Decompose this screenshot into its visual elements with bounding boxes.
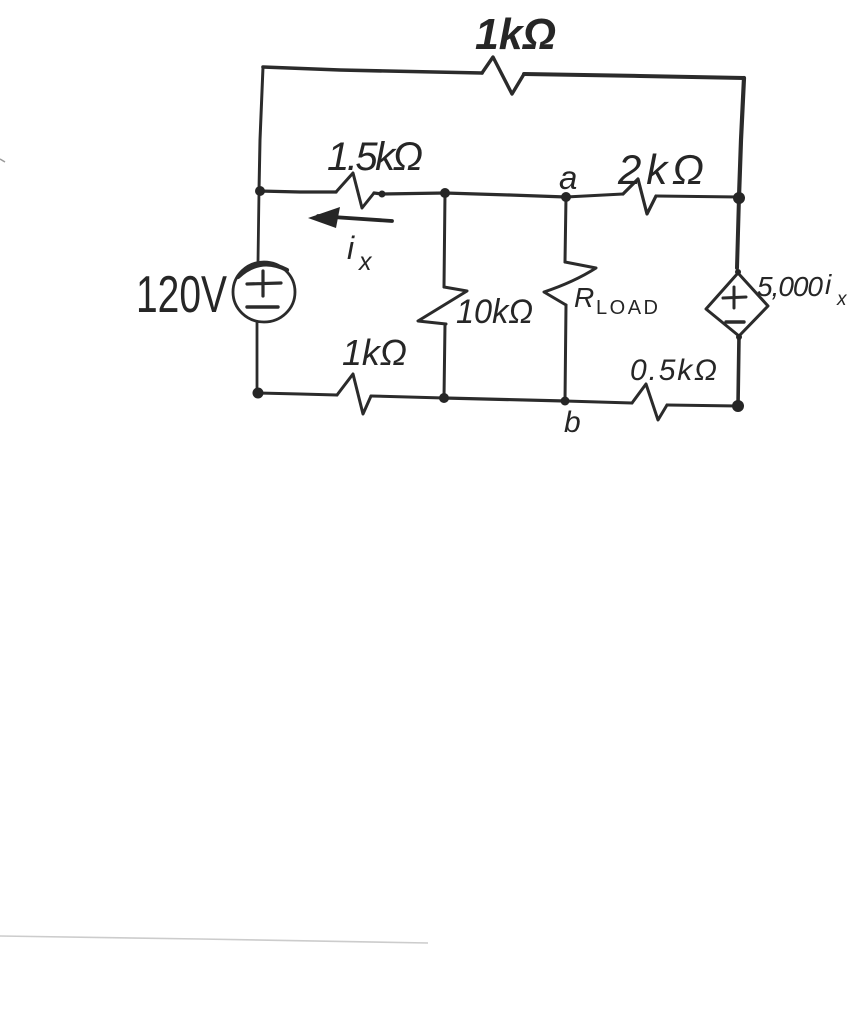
wire top (right segment)	[524, 74, 744, 78]
wire 10k branch bottom	[444, 324, 445, 398]
svg-text:i: i	[347, 230, 355, 266]
resistor R4 bottom 1kΩ zigzag	[337, 374, 371, 414]
svg-text:b: b	[564, 406, 581, 439]
node bottom-right junction	[732, 400, 744, 412]
node diamond bottom blob	[736, 334, 742, 340]
dependent source diamond 5000ix	[706, 273, 768, 336]
resistor R3 2kΩ zigzag	[623, 179, 656, 214]
svg-text:x: x	[358, 248, 373, 276]
wire top (left segment)	[263, 67, 482, 73]
svg-text:R: R	[574, 282, 594, 313]
wire diamond to bottom-right	[738, 336, 739, 406]
dependent source plus sign	[723, 287, 746, 308]
wire bottom node to b	[444, 398, 565, 401]
node 10k top junction	[440, 188, 450, 198]
arrow ix shaft	[318, 216, 392, 221]
wire 10k branch top	[444, 193, 445, 287]
wire bottom to 10k bottom node	[371, 396, 444, 398]
node b junction	[561, 397, 570, 406]
node small after 1.5k	[379, 191, 386, 198]
wire left node to source	[258, 191, 259, 262]
wire Rload branch top	[565, 197, 566, 262]
svg-text:1kΩ: 1kΩ	[342, 332, 407, 373]
resistor RLOAD zigzag	[544, 262, 596, 305]
svg-text:2kΩ: 2kΩ	[617, 146, 704, 193]
svg-text:a: a	[559, 159, 577, 196]
wire right vertical top	[739, 78, 744, 197]
svg-text:0.5kΩ: 0.5kΩ	[630, 354, 717, 387]
svg-text:5,000: 5,000	[757, 271, 823, 302]
wire mid node to a	[445, 193, 566, 197]
wire b to 0.5k	[565, 401, 632, 403]
node mid-left junction	[255, 186, 265, 196]
node diamond top blob	[735, 269, 741, 275]
svg-text:i: i	[825, 269, 832, 300]
voltage source V1 plus sign	[247, 271, 281, 296]
svg-text:x: x	[836, 289, 848, 310]
dependent source minus sign	[726, 320, 744, 323]
svg-text:1kΩ: 1kΩ	[475, 10, 556, 59]
wire a to 2k	[566, 194, 623, 197]
wire 2k to right node	[656, 196, 739, 197]
resistor R6 10kΩ zigzag	[418, 287, 467, 324]
paper crease faint line	[0, 936, 428, 943]
wire bottom left segment	[258, 393, 337, 395]
voltage source V1 circle 120V	[233, 262, 295, 322]
wire mid horizontal to 10k node	[374, 193, 445, 194]
svg-text:10kΩ: 10kΩ	[456, 293, 533, 331]
wire 0.5k to bottom-right node	[667, 405, 738, 406]
wire mid horizontal left	[259, 191, 336, 192]
voltage source V1 minus sign	[247, 305, 278, 308]
wire source to bottom-left	[256, 322, 259, 392]
node 10k bottom junction	[439, 393, 449, 403]
resistor R2 1.5kΩ zigzag	[336, 173, 374, 208]
stray mark left edge	[0, 159, 5, 162]
wire right node to diamond	[737, 197, 739, 268]
resistor R5 0.5kΩ zigzag	[632, 384, 667, 420]
node a junction	[561, 192, 571, 202]
resistor R top 1kΩ zigzag	[482, 57, 524, 94]
node mid-right junction	[733, 192, 745, 204]
svg-text:1.5kΩ: 1.5kΩ	[327, 135, 423, 179]
node bottom-left junction	[253, 388, 264, 399]
svg-text:LOAD: LOAD	[596, 297, 658, 319]
wire Rload branch bottom	[565, 305, 566, 401]
svg-text:120V: 120V	[136, 266, 227, 324]
voltage source V1 top overdraw arc	[238, 264, 287, 277]
wire left vertical	[259, 67, 263, 191]
arrow ix head	[308, 207, 340, 228]
